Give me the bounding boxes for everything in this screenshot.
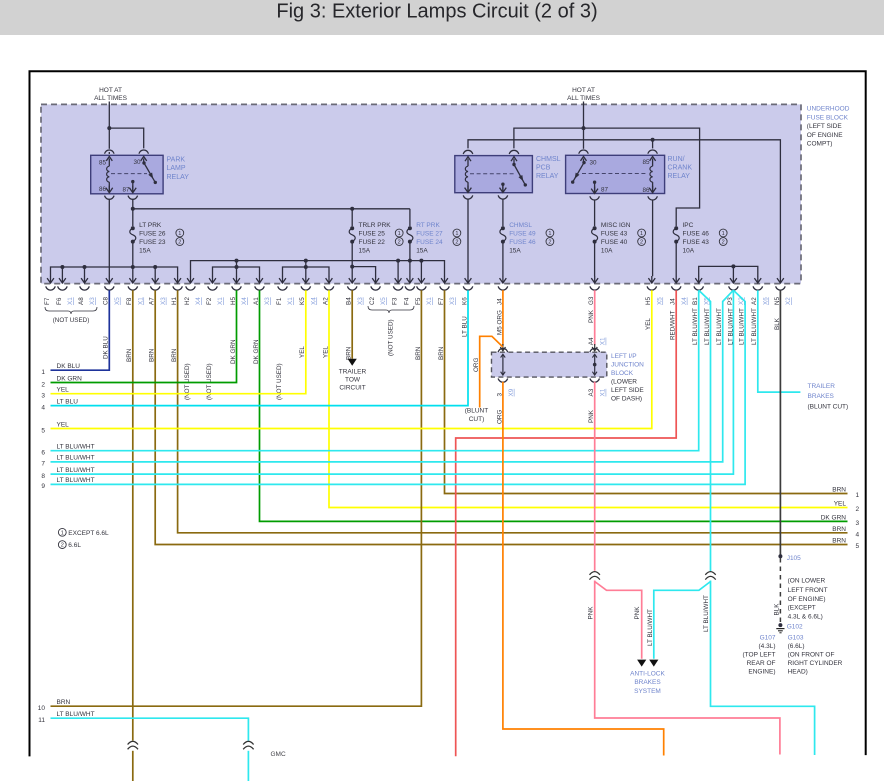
wire LT BLU/WHT B1 to left row 6 <box>51 290 699 451</box>
svg-text:3: 3 <box>41 393 45 400</box>
pin J4 at x=502.9 <box>502 276 504 283</box>
svg-text:X4: X4 <box>681 297 688 305</box>
wire BLK dashed to ground <box>779 558 781 622</box>
wire BLK N5 to J105 <box>779 290 781 555</box>
wire park 87 to fuses bus <box>132 199 134 226</box>
svg-text:(EXCEPT: (EXCEPT <box>788 605 816 612</box>
svg-text:2: 2 <box>548 240 551 246</box>
svg-text:2: 2 <box>398 240 401 246</box>
pin A2 at x=329.0 <box>328 276 330 283</box>
svg-text:SYSTEM: SYSTEM <box>634 688 661 695</box>
svg-text:10: 10 <box>38 705 46 712</box>
svg-text:FUSE 22: FUSE 22 <box>359 239 386 246</box>
label (NOT USED) brace left <box>45 307 97 314</box>
svg-text:ENGINE): ENGINE) <box>748 668 775 675</box>
svg-text:OF DASH): OF DASH) <box>611 396 642 403</box>
wire ORG junction block to bottom <box>503 382 664 756</box>
svg-text:FUSE 43: FUSE 43 <box>601 230 628 237</box>
label (NOT USED) brace right <box>368 306 414 313</box>
svg-text:FUSE 27: FUSE 27 <box>416 230 443 237</box>
pin F2 at x=212.5 <box>212 276 214 283</box>
svg-text:BRN: BRN <box>832 487 846 494</box>
wire BRN B4 trailer tow stub <box>351 290 353 359</box>
svg-text:REAR OF: REAR OF <box>747 660 776 667</box>
wire left hot feed <box>108 102 110 149</box>
svg-text:YEL: YEL <box>834 501 847 508</box>
pin K5 at x=305.8 <box>305 276 307 283</box>
svg-text:F2: F2 <box>206 297 213 305</box>
svg-text:15A: 15A <box>509 247 521 254</box>
node junction bus A A7 <box>153 265 157 269</box>
wire bus B drop F3 <box>397 261 399 277</box>
svg-text:J105: J105 <box>787 555 801 562</box>
relay U1 pin 30 arc <box>139 150 149 154</box>
connector on row 11 at GMC <box>243 741 253 744</box>
wire PNK G3 to junction block <box>594 290 596 345</box>
svg-text:FUSE BLOCK: FUSE BLOCK <box>807 114 849 121</box>
fuse MISC IGN FUSE 43/40 10A <box>593 226 597 230</box>
relay U3 pin 87 <box>593 181 596 184</box>
arrow ORG into junction block <box>502 344 504 351</box>
svg-text:LT PRK: LT PRK <box>139 222 162 229</box>
wire RT PRK fuse out <box>409 242 411 277</box>
pin B1 at x=698.7 <box>698 276 700 283</box>
wire bus A drop A8 <box>84 267 86 276</box>
svg-text:G102: G102 <box>787 624 803 631</box>
svg-text:LT BLU/WHT: LT BLU/WHT <box>647 609 654 646</box>
svg-text:LEFT I/P: LEFT I/P <box>611 353 637 360</box>
svg-text:H2: H2 <box>184 296 191 305</box>
splice J105 <box>778 554 782 558</box>
svg-text:CIRCUIT: CIRCUIT <box>339 385 365 392</box>
wire mini-bus B1/P3/A2 <box>699 266 758 276</box>
wire bus B <box>191 261 445 277</box>
svg-text:X5: X5 <box>380 297 387 305</box>
svg-text:PCB: PCB <box>536 165 551 172</box>
wire CHMSL fuse out <box>502 242 504 277</box>
relay U3 coil <box>652 158 654 166</box>
wire DK GRN A1 to right row 3 <box>260 290 848 521</box>
svg-text:GMC: GMC <box>271 751 286 758</box>
svg-text:ORG: ORG <box>473 358 480 372</box>
svg-text:LT BLU: LT BLU <box>57 398 79 405</box>
svg-text:C2: C2 <box>369 296 376 305</box>
relay U3 internal dashed link <box>582 173 648 175</box>
wire LT BLU/WHT P3 to left row 9 <box>51 290 746 484</box>
svg-text:CHMSL: CHMSL <box>509 222 532 229</box>
relay U3 switch pin 30 <box>583 159 585 163</box>
wire bus A <box>51 267 178 276</box>
arrow LT BLU/WHT into ABS <box>649 660 658 667</box>
wire LT BLU/WHT P3 to left row 8 <box>51 290 734 474</box>
junction block arc bottom left <box>498 379 508 383</box>
node junction right feed <box>582 126 586 130</box>
wire MISC IGN fuse out <box>594 242 596 277</box>
relay U3 pin 87 arc <box>590 196 600 200</box>
svg-text:X3: X3 <box>449 297 456 305</box>
junction block pin pass-through left <box>502 354 504 375</box>
svg-text:(BLUNT CUT): (BLUNT CUT) <box>808 403 849 410</box>
svg-text:PNK: PNK <box>634 606 641 620</box>
svg-text:5: 5 <box>41 427 45 434</box>
svg-text:FUSE 46: FUSE 46 <box>509 239 536 246</box>
fuse IPC FUSE 46/43 10A <box>674 226 678 230</box>
wire BRN A7 to right row 5 <box>155 290 847 544</box>
svg-text:A8: A8 <box>78 297 85 305</box>
svg-text:1: 1 <box>41 369 45 376</box>
pin K6 at x=468.0 <box>467 276 469 283</box>
relay U1 PARK LAMP RELAY box <box>91 155 163 194</box>
node junction bus B F5 <box>419 259 423 263</box>
wire park 86 to pin C8 <box>108 199 110 276</box>
svg-text:X1: X1 <box>600 337 607 345</box>
pin F1 at x=282.5 <box>282 276 284 283</box>
svg-text:BRAKES: BRAKES <box>808 393 835 400</box>
wire YEL H5 to left row 5 <box>51 290 652 428</box>
svg-text:10A: 10A <box>683 247 695 254</box>
svg-text:X1: X1 <box>426 297 433 305</box>
pin F3 at x=398.1 <box>397 276 399 283</box>
svg-text:F6: F6 <box>56 297 63 305</box>
relay U2 switch arc <box>509 150 519 154</box>
svg-text:2: 2 <box>61 543 64 549</box>
svg-text:(4.3L): (4.3L) <box>759 643 776 650</box>
arrow PNK into junction block <box>594 344 596 351</box>
svg-text:87: 87 <box>601 186 609 193</box>
node junction mini-bus H5 <box>235 265 239 269</box>
svg-text:2: 2 <box>455 240 458 246</box>
svg-text:MISC IGN: MISC IGN <box>601 222 631 229</box>
node junction bus B fusein <box>408 259 412 263</box>
svg-text:3: 3 <box>856 520 860 527</box>
svg-text:LAMP: LAMP <box>167 165 186 172</box>
svg-text:F1: F1 <box>276 297 283 305</box>
relay U2 coil arc <box>463 150 473 154</box>
svg-text:87: 87 <box>122 186 130 193</box>
wire LT BLU K6 to left row 4 <box>51 290 469 405</box>
relay U3 pin 86 arc <box>648 196 658 200</box>
pin F8 at x=132.8 <box>132 276 134 283</box>
svg-text:X3: X3 <box>264 297 271 305</box>
svg-text:8: 8 <box>41 473 45 480</box>
node junction mini-bus K5 <box>304 265 308 269</box>
wire BRN F5 to left row 10 <box>51 290 422 706</box>
svg-text:30: 30 <box>133 159 141 166</box>
relay U1 switch blade <box>144 163 155 182</box>
pin C8 at x=109.3 <box>108 276 110 283</box>
wire CHMSL coil out to pin K6 <box>467 199 469 276</box>
relay U3 pin 30 arc <box>579 150 589 154</box>
svg-text:6.6L: 6.6L <box>68 542 81 549</box>
wire LT PRK fuse out <box>132 242 134 277</box>
pin F5 at x=421.4 <box>420 276 422 283</box>
pin P3 at x=733.4 <box>732 276 734 283</box>
svg-text:BRN: BRN <box>57 699 71 706</box>
svg-text:RT PRK: RT PRK <box>416 222 440 229</box>
node junction run/crank coil feed <box>651 138 655 142</box>
svg-text:G103: G103 <box>788 634 804 641</box>
wire PNK junction block down <box>594 382 596 571</box>
junction block LEFT I/P <box>492 352 607 377</box>
relay U2 switch pin <box>513 159 515 164</box>
svg-text:CUT): CUT) <box>469 416 485 423</box>
svg-text:1: 1 <box>455 231 458 237</box>
svg-text:RUN/: RUN/ <box>668 156 685 163</box>
connector on BRN at GMC <box>128 741 138 744</box>
svg-text:FUSE 46: FUSE 46 <box>683 230 710 237</box>
svg-text:X4: X4 <box>241 297 248 305</box>
svg-text:X1: X1 <box>600 388 607 396</box>
svg-text:FUSE 25: FUSE 25 <box>359 230 386 237</box>
svg-text:(TOP LEFT: (TOP LEFT <box>743 651 776 658</box>
svg-text:LEFT FRONT: LEFT FRONT <box>788 587 828 594</box>
pin H2 at x=190.5 <box>190 276 192 283</box>
svg-text:IPC: IPC <box>683 222 694 229</box>
wire bus A drop F6 <box>61 267 63 276</box>
legend 6.6L <box>58 541 66 549</box>
svg-text:15A: 15A <box>416 247 428 254</box>
wire TRLR fuse out to B4 and C2 <box>351 242 353 277</box>
pin A7 at x=155.2 <box>154 276 156 283</box>
pin F7 at x=50.5 <box>50 276 52 283</box>
wire trlr fuse drop <box>351 209 353 226</box>
pin B4 at x=352.2 <box>351 276 353 283</box>
node junction bus B K5 <box>304 259 308 263</box>
wire LT BLU/WHT A2 to trailer brakes <box>758 290 801 392</box>
svg-text:(6.6L): (6.6L) <box>788 643 805 650</box>
connector splice on PNK <box>590 572 600 575</box>
node junction mini-bus P3 <box>731 264 735 268</box>
svg-text:15A: 15A <box>139 247 151 254</box>
svg-text:UNDERHOOD: UNDERHOOD <box>807 106 850 113</box>
wire CHMSL relay out to fuse <box>502 199 504 226</box>
wire ORG blunt-cut branch <box>480 336 503 407</box>
svg-text:X2: X2 <box>785 297 792 305</box>
svg-text:85: 85 <box>642 159 650 166</box>
wire RUN/CRANK 87 to MISC IGN fuse <box>594 200 596 226</box>
svg-text:85: 85 <box>99 159 107 166</box>
wire drop to run/crank coil <box>652 140 654 149</box>
relay U2 coil out arc <box>463 195 473 199</box>
fuse LT PRK FUSE 26/23 15A <box>131 226 135 230</box>
pin A1 at x=259.5 <box>259 276 261 283</box>
wire BRN F7 to right row 1 <box>445 290 848 493</box>
svg-text:HOT AT: HOT AT <box>572 87 595 94</box>
wire BRN H1 to right row 4 <box>178 290 848 533</box>
svg-text:ANTI-LOCK: ANTI-LOCK <box>630 670 665 677</box>
junction block pin pass-through right <box>594 354 596 375</box>
svg-text:OF ENGINE: OF ENGINE <box>807 132 843 139</box>
wire PNK branch to ABS <box>595 582 642 659</box>
wire DK BLU C8 to left row 1 <box>51 290 110 370</box>
svg-text:BLK: BLK <box>773 603 780 616</box>
node junction trlr fuse tap <box>350 207 354 211</box>
svg-text:X4: X4 <box>195 297 202 305</box>
svg-text:1: 1 <box>548 231 551 237</box>
svg-text:HEAD): HEAD) <box>788 668 808 675</box>
svg-text:DK BLU: DK BLU <box>57 363 81 370</box>
svg-text:1: 1 <box>640 231 643 237</box>
relay U3 RUN/CRANK RELAY box <box>566 155 665 193</box>
svg-text:PNK: PNK <box>588 606 595 620</box>
pin H5 at x=651.8 <box>651 276 653 283</box>
wire LT BLU/WHT B1 branch to splice <box>699 290 711 571</box>
wire bus B drop F5 <box>420 261 422 277</box>
relay U2 coil <box>467 159 469 167</box>
wire bus y140 coil feed <box>468 140 780 276</box>
svg-text:11: 11 <box>38 717 45 724</box>
relay U1 pin 85 arc <box>105 150 115 154</box>
node junction bus A F6 <box>60 265 64 269</box>
svg-text:Fig 3: Exterior Lamps Circuit: Fig 3: Exterior Lamps Circuit (2 of 3) <box>276 1 597 23</box>
svg-text:10A: 10A <box>601 247 613 254</box>
svg-text:(NOT USED): (NOT USED) <box>53 317 90 324</box>
svg-text:LT BLU/WHT: LT BLU/WHT <box>703 595 710 632</box>
svg-text:ORG: ORG <box>496 410 503 424</box>
relay U3 pin 85 arc <box>648 150 658 154</box>
svg-text:X5: X5 <box>114 297 121 305</box>
svg-text:LT BLU/WHT: LT BLU/WHT <box>57 711 95 718</box>
svg-text:30: 30 <box>590 160 598 167</box>
svg-text:FUSE 49: FUSE 49 <box>509 230 536 237</box>
svg-text:2: 2 <box>41 381 45 388</box>
svg-text:CRANK: CRANK <box>668 165 693 172</box>
pin H5 at x=236.5 <box>236 276 238 283</box>
svg-text:F4: F4 <box>403 297 410 305</box>
svg-text:EXCEPT 6.6L: EXCEPT 6.6L <box>68 530 109 537</box>
svg-text:TRLR PRK: TRLR PRK <box>359 222 392 229</box>
svg-text:X4: X4 <box>310 297 317 305</box>
wire LT BLU/WHT P3 to left row 7 <box>51 290 734 462</box>
node junction left feed <box>107 126 111 130</box>
fuse TRLR PRK FUSE 25/22 15A <box>350 226 354 230</box>
svg-text:(LOWER: (LOWER <box>611 379 637 386</box>
relay U1 pin 87 arc <box>128 196 138 200</box>
svg-text:BRN: BRN <box>832 538 846 545</box>
svg-text:(ON LOWER: (ON LOWER <box>788 578 826 585</box>
svg-text:86: 86 <box>642 187 650 194</box>
svg-text:YEL: YEL <box>57 421 70 428</box>
relay U1 pin 86 arc <box>105 196 115 200</box>
svg-text:TRAILER: TRAILER <box>339 368 367 375</box>
relay U2 switch blade <box>514 165 525 185</box>
pin J4 at x=676.2 <box>675 276 677 283</box>
svg-text:(NOT USED): (NOT USED) <box>388 319 395 356</box>
wire bus y128 to CHMSL switch and IPC feed <box>514 128 700 226</box>
svg-text:X1: X1 <box>137 297 144 305</box>
fuse CHMSL FUSE 49/46 15A <box>501 226 505 230</box>
svg-text:BRN: BRN <box>832 526 846 533</box>
wire LT BLU/WHT main to bottom right <box>711 581 815 756</box>
svg-text:FUSE 43: FUSE 43 <box>683 239 710 246</box>
svg-text:1: 1 <box>178 231 181 237</box>
relay U1 pin 87 <box>131 180 134 183</box>
svg-text:ALL TIMES: ALL TIMES <box>94 95 128 102</box>
svg-text:RELAY: RELAY <box>536 173 559 180</box>
svg-text:4: 4 <box>856 531 860 538</box>
svg-text:PARK: PARK <box>167 157 186 164</box>
arrow PNK into ABS <box>637 660 646 667</box>
node junction bus A A8 <box>83 265 87 269</box>
wire YEL A2 to right row 2 <box>329 290 848 507</box>
pin H1 at x=177.6 <box>177 276 179 283</box>
svg-text:2: 2 <box>640 240 643 246</box>
arrow trailer tow <box>348 359 357 366</box>
svg-text:FUSE 26: FUSE 26 <box>139 230 166 237</box>
title bar <box>0 0 884 35</box>
svg-text:X3: X3 <box>160 297 167 305</box>
svg-text:4: 4 <box>41 404 45 411</box>
svg-text:RIGHT CYLINDER: RIGHT CYLINDER <box>788 660 843 667</box>
svg-text:LT BLU/WHT: LT BLU/WHT <box>57 444 95 451</box>
svg-text:PNK: PNK <box>588 409 595 423</box>
svg-text:LT BLU/WHT: LT BLU/WHT <box>57 467 95 474</box>
svg-text:OF ENGINE): OF ENGINE) <box>788 596 826 603</box>
svg-text:86: 86 <box>99 186 107 193</box>
wire LT BLU/WHT left row 11 <box>51 718 249 740</box>
wire RED/WHT J4 down-left-down <box>456 290 677 756</box>
wire IPC fuse out <box>675 242 677 277</box>
relay U2 CHMSL PCB RELAY box <box>455 156 533 193</box>
svg-text:(LEFT SIDE: (LEFT SIDE <box>807 123 843 130</box>
svg-text:X1: X1 <box>217 297 224 305</box>
wire mini-bus H5 group <box>213 267 260 276</box>
svg-text:1: 1 <box>398 231 401 237</box>
underhood fuse block outline <box>41 104 801 283</box>
svg-text:2: 2 <box>178 240 181 246</box>
svg-text:1: 1 <box>722 231 725 237</box>
node junction bus B F3 <box>396 259 400 263</box>
svg-text:DK GRN: DK GRN <box>821 514 847 521</box>
junction block arc top left <box>498 348 508 352</box>
relay U3 switch blade <box>573 163 584 183</box>
wire RUN/CRANK coil out to pin H5 <box>652 200 654 276</box>
relay U2 output pin <box>501 183 504 186</box>
svg-text:RELAY: RELAY <box>167 174 190 181</box>
svg-text:HOT AT: HOT AT <box>99 87 122 94</box>
svg-text:(BLUNT: (BLUNT <box>465 408 489 415</box>
pin F7 at x=444.5 <box>444 276 446 283</box>
fuse RT PRK FUSE 27/24 15A <box>408 226 412 230</box>
junction block arc top right <box>590 348 600 352</box>
svg-text:6: 6 <box>41 450 45 457</box>
svg-text:F7: F7 <box>44 297 51 305</box>
pin C2 at x=375.6 <box>375 276 377 283</box>
svg-text:BRAKES: BRAKES <box>634 679 661 686</box>
svg-text:FUSE 23: FUSE 23 <box>139 239 166 246</box>
svg-text:A4: A4 <box>588 337 595 345</box>
svg-text:5: 5 <box>856 543 860 550</box>
svg-text:RELAY: RELAY <box>668 173 691 180</box>
svg-text:X6: X6 <box>762 297 769 305</box>
relay U1 internal dashed link <box>111 173 147 175</box>
svg-text:F3: F3 <box>392 297 399 305</box>
pin F4 at x=409.9 <box>409 276 411 283</box>
svg-text:DK GRN: DK GRN <box>57 375 83 382</box>
wire PNK main to bottom right <box>595 581 780 755</box>
svg-text:(ON FRONT OF: (ON FRONT OF <box>788 651 835 658</box>
pin F6 at x=62.4 <box>61 276 63 283</box>
svg-text:X3: X3 <box>357 297 364 305</box>
relay U2 internal dashed link <box>470 173 516 175</box>
relay U2 output arc <box>498 195 508 199</box>
svg-text:CHMSL: CHMSL <box>536 156 561 163</box>
svg-text:TOW: TOW <box>345 377 361 384</box>
svg-text:X9: X9 <box>508 388 515 396</box>
wire BRN F8 down to GMC <box>132 290 134 740</box>
svg-text:7: 7 <box>41 461 45 468</box>
junction block arc bottom right <box>590 379 600 383</box>
